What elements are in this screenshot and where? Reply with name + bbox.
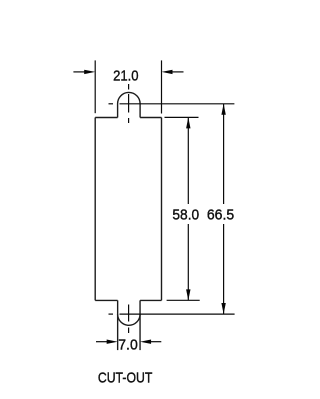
svg-text:58.0: 58.0 [172,207,199,224]
svg-text:66.5: 66.5 [207,207,234,224]
svg-text:7.0: 7.0 [118,337,138,354]
svg-text:21.0: 21.0 [113,67,139,84]
svg-text:CUT-OUT: CUT-OUT [98,369,153,386]
